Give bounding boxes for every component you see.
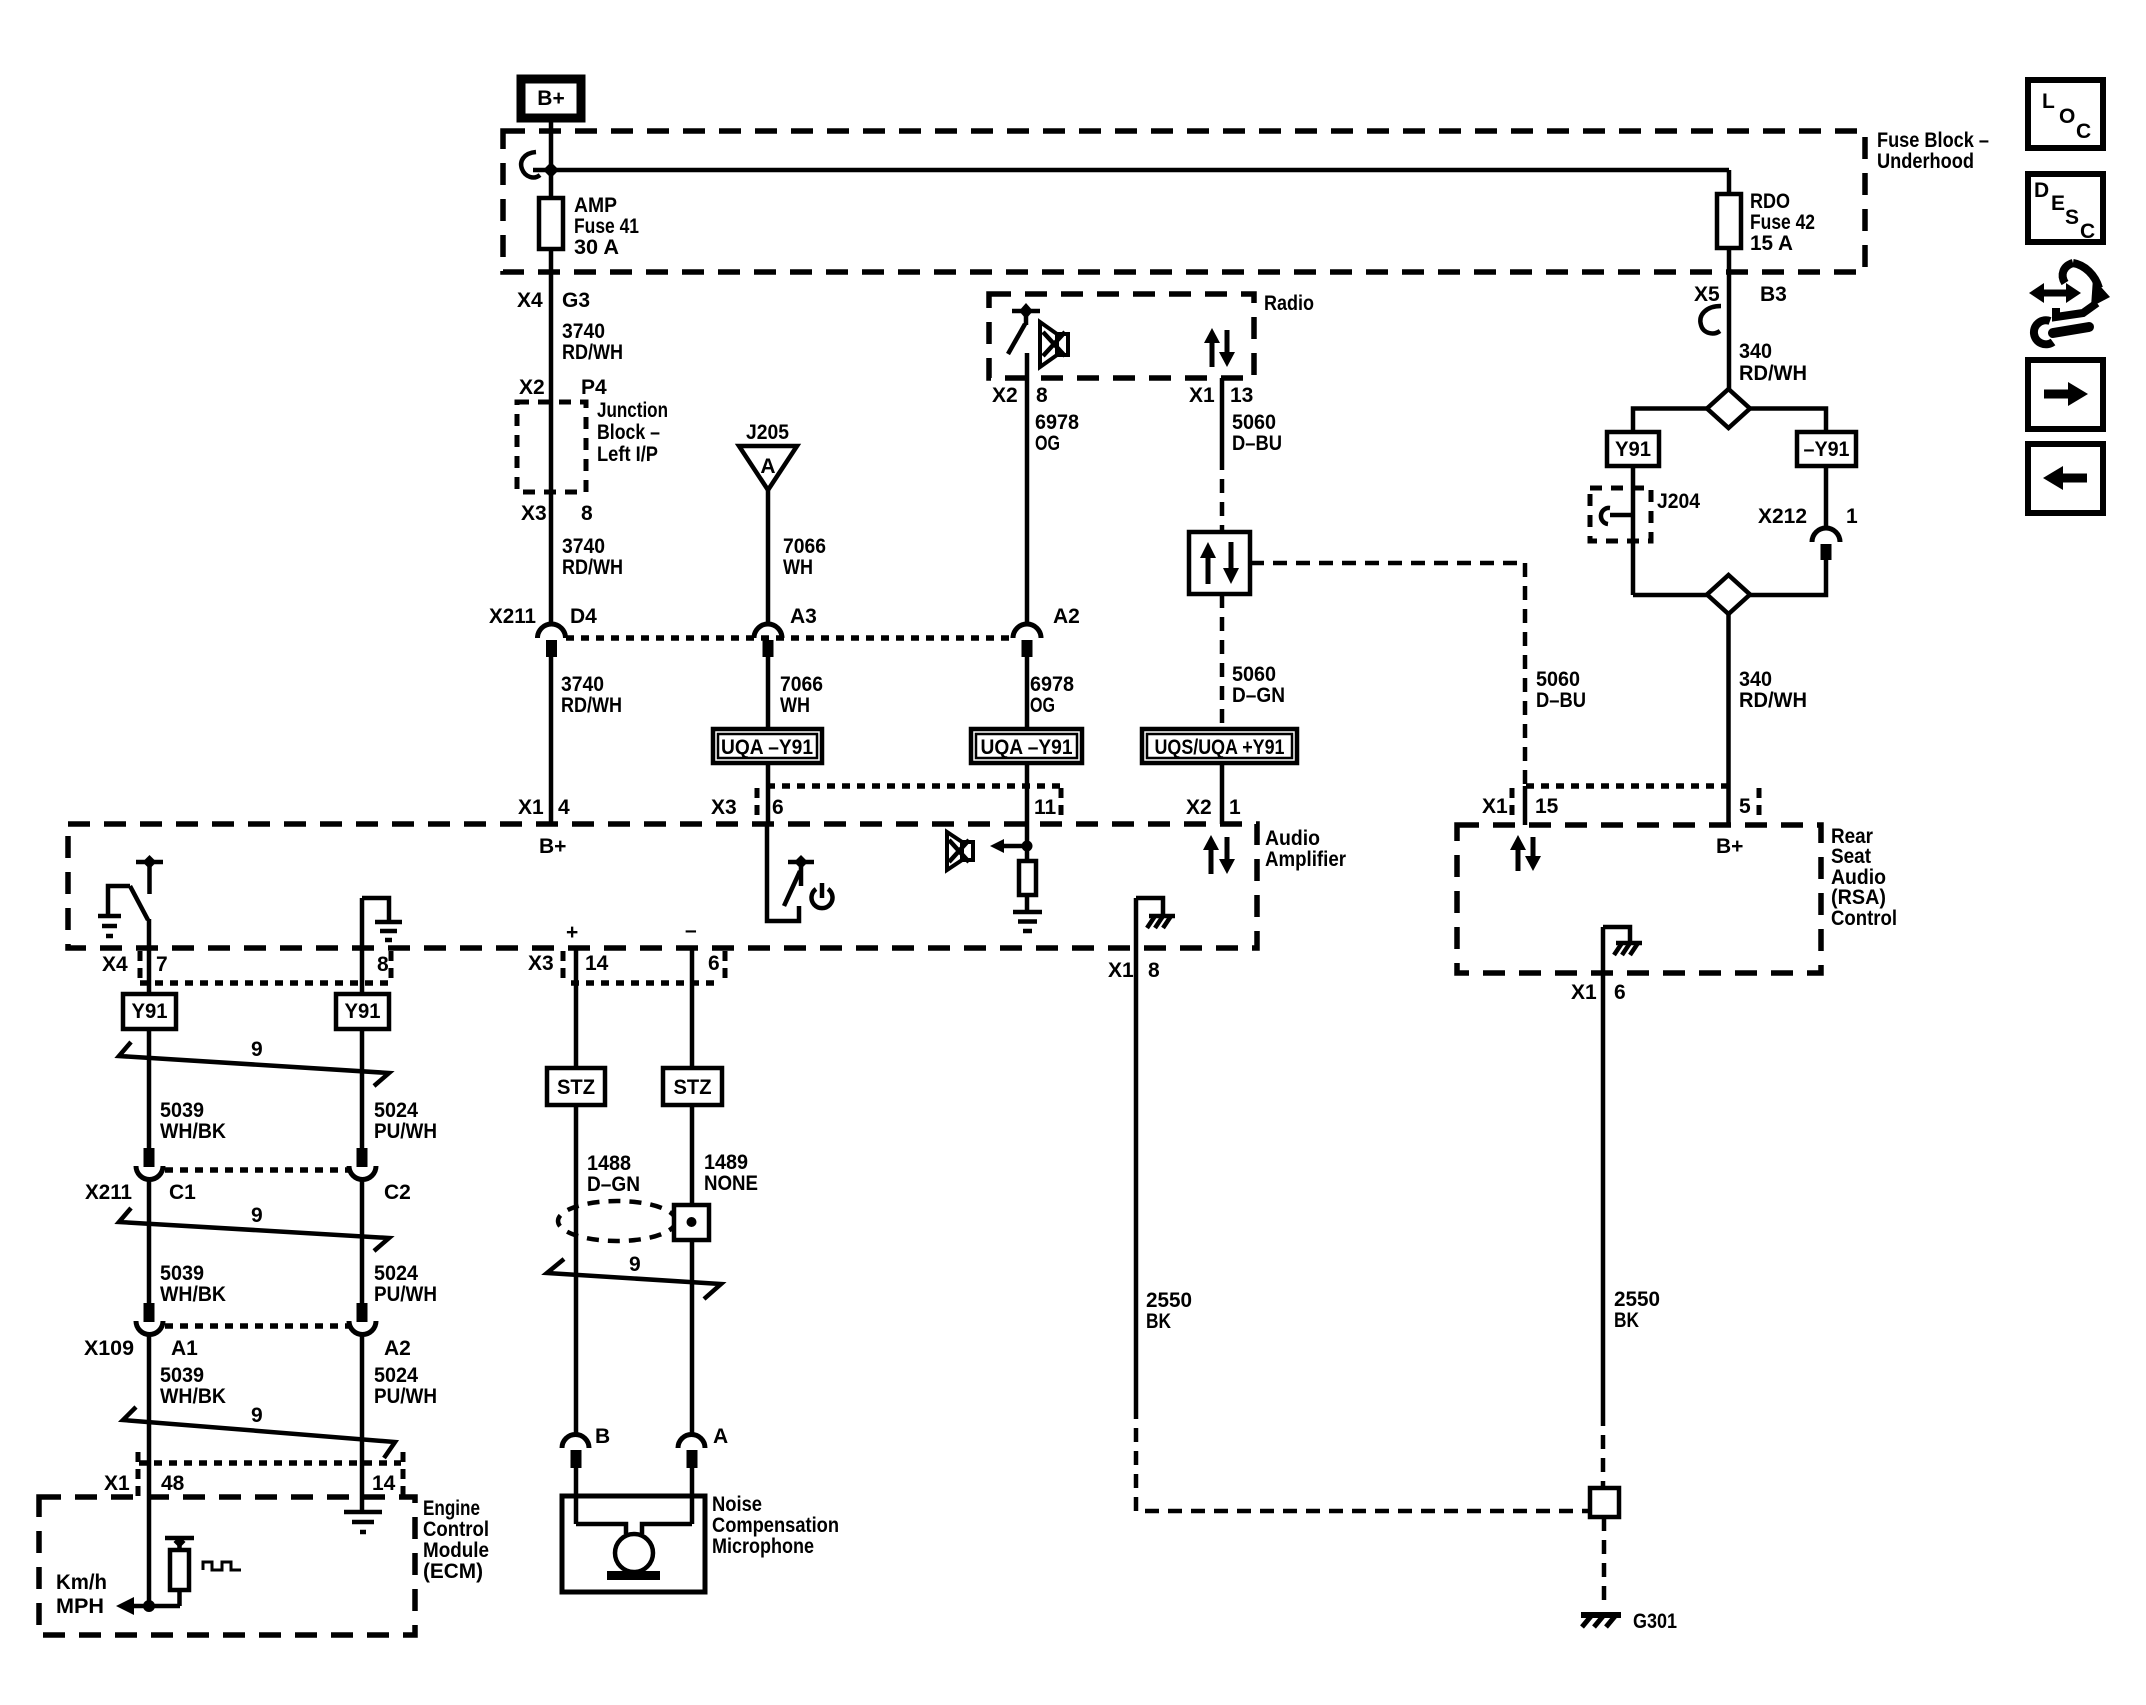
svg-text:5039: 5039 xyxy=(160,1364,204,1387)
svg-text:Block –: Block – xyxy=(597,421,660,444)
svg-text:G3: G3 xyxy=(562,289,590,312)
amp chassis ground pin X1-8 xyxy=(1136,898,1175,948)
svg-text:A2: A2 xyxy=(1053,605,1080,628)
connector A arc xyxy=(678,1435,705,1449)
svg-text:30 A: 30 A xyxy=(574,236,619,259)
mic column connector X3 row xyxy=(528,952,720,975)
svg-text:Seat: Seat xyxy=(1831,845,1871,868)
amp wire pin 7 xyxy=(147,919,152,948)
Rear Seat Audio RSA Control dashed box xyxy=(1457,825,1821,973)
svg-text:E: E xyxy=(2051,192,2065,215)
wire A1 to ECM xyxy=(147,1335,152,1606)
connector X212 pin xyxy=(1821,544,1832,560)
svg-text:14: 14 xyxy=(585,952,609,975)
svg-text:3740: 3740 xyxy=(562,535,605,558)
connector X211 row: D4 A3 A2 xyxy=(489,605,1080,628)
wire B+ down into fuse block xyxy=(549,118,554,198)
svg-text:Control: Control xyxy=(423,1518,489,1541)
connector A2 cup xyxy=(349,1321,376,1335)
label 6978 OG xyxy=(1035,411,1079,455)
nav icon DESC box xyxy=(2028,174,2103,243)
Noise Compensation Microphone box xyxy=(562,1496,705,1592)
label 6978 OG xyxy=(1030,673,1074,717)
nav icon left arrow box xyxy=(2028,444,2103,513)
option box STZ right xyxy=(663,1068,722,1105)
wire hook at bus left end xyxy=(521,152,540,177)
svg-text:15: 15 xyxy=(1535,795,1559,818)
bus wire across fuse block xyxy=(533,168,1729,173)
amp wire resistor to ground xyxy=(1025,895,1030,912)
connector A3 socket arc xyxy=(754,624,782,638)
svg-text:D–BU: D–BU xyxy=(1536,689,1586,712)
svg-text:D4: D4 xyxy=(570,605,597,628)
svg-text:C: C xyxy=(2076,120,2091,143)
svg-text:3740: 3740 xyxy=(561,673,604,696)
svg-text:6: 6 xyxy=(772,796,784,819)
svg-text:D: D xyxy=(2034,179,2049,202)
svg-text:15 A: 15 A xyxy=(1750,232,1793,255)
amp ground switch icon pin 7 xyxy=(98,855,163,936)
wire 2550 BK RSA down xyxy=(1601,1010,1606,1412)
svg-text:BK: BK xyxy=(1146,1310,1171,1333)
label 2550 BK left xyxy=(1146,1289,1192,1333)
wire dashed from box down to UQS box xyxy=(1220,594,1225,729)
nav icon right arrow box xyxy=(2028,360,2103,429)
svg-text:C2: C2 xyxy=(384,1181,411,1204)
svg-text:+: + xyxy=(566,921,578,944)
svg-text:Fuse 41: Fuse 41 xyxy=(574,215,639,238)
svg-text:6978: 6978 xyxy=(1035,411,1079,434)
connector C2 cup xyxy=(349,1166,376,1180)
connector X1 48 14 labels xyxy=(104,1472,396,1495)
svg-text:1: 1 xyxy=(1846,505,1858,528)
option box UQA -Y91 (right) xyxy=(971,729,1082,763)
wire 6978 OG radio to A2 xyxy=(1025,353,1030,624)
svg-text:BK: BK xyxy=(1614,1309,1639,1332)
connector tick X3 mic left xyxy=(561,951,566,984)
svg-text:RD/WH: RD/WH xyxy=(1739,689,1807,712)
svg-text:340: 340 xyxy=(1739,340,1772,363)
Fuse Block - Underhood label xyxy=(1877,129,1989,173)
option box Y91 xyxy=(1607,432,1659,466)
svg-text:5060: 5060 xyxy=(1232,663,1276,686)
Junction Block - Left I/P dashed box xyxy=(517,402,586,492)
amp pin labels X1 8 xyxy=(1108,959,1160,982)
wire 6978 OG A2 to UQA box xyxy=(1025,657,1030,729)
ECM signal ground pin 14 xyxy=(344,1512,382,1532)
svg-text:S: S xyxy=(2065,206,2079,229)
svg-text:8: 8 xyxy=(1036,384,1048,407)
svg-text:7066: 7066 xyxy=(780,673,823,696)
amp pin labels X3 6 xyxy=(711,796,784,819)
svg-text:9: 9 xyxy=(629,1253,641,1276)
label 3740 RD/WH xyxy=(562,320,623,364)
svg-text:Control: Control xyxy=(1831,907,1897,930)
Junction Block label xyxy=(597,399,668,466)
bridge wires top xyxy=(1633,409,1826,433)
wire C2 to A2 xyxy=(360,1180,365,1303)
wire 1488 D-GN STZ to mic B xyxy=(574,1105,579,1435)
svg-text:J204: J204 xyxy=(1657,490,1700,513)
svg-text:Noise: Noise xyxy=(712,1493,762,1516)
label 7066 WH xyxy=(780,673,823,717)
wire dashed splice to G301 xyxy=(1602,1517,1607,1608)
svg-text:2550: 2550 xyxy=(1614,1288,1660,1311)
svg-text:B: B xyxy=(595,1425,610,1448)
wire through junction block xyxy=(549,402,554,492)
ECM Km/h MPH label xyxy=(56,1571,107,1618)
radio up/down arrows icon xyxy=(1204,328,1235,367)
svg-text:B3: B3 xyxy=(1760,283,1787,306)
svg-text:(RSA): (RSA) xyxy=(1831,886,1886,909)
svg-text:D–GN: D–GN xyxy=(1232,684,1285,707)
bridge wires bottom xyxy=(1633,560,1826,595)
ECM PWM waveform glyph xyxy=(203,1562,241,1570)
svg-text:6: 6 xyxy=(708,952,720,975)
svg-text:6: 6 xyxy=(1614,981,1626,1004)
label 1489 NONE xyxy=(704,1151,758,1195)
amp connector tick 11 right xyxy=(1059,788,1064,822)
svg-text:STZ: STZ xyxy=(557,1076,595,1099)
amp pin labels X1 4 B+ xyxy=(518,796,570,858)
svg-text:X3: X3 xyxy=(521,502,547,525)
nav icon LOC box xyxy=(2028,80,2103,148)
svg-text:RD/WH: RD/WH xyxy=(562,556,623,579)
ECM speed output wire and arrow xyxy=(116,1597,180,1615)
label 3740 RD/WH xyxy=(561,673,622,717)
splice diamond bottom xyxy=(1707,575,1750,614)
connector X109 A1 A2 labels xyxy=(84,1337,411,1360)
splice J205 triangle xyxy=(739,446,797,490)
svg-text:4: 4 xyxy=(558,796,570,819)
svg-text:PU/WH: PU/WH xyxy=(374,1385,437,1408)
connector tick X4 left xyxy=(138,951,143,984)
shield ellipse dashed xyxy=(558,1201,676,1241)
ground splice box xyxy=(1590,1488,1619,1517)
label 1488 D-GN xyxy=(587,1152,640,1196)
twisted pair symbol 2 xyxy=(119,1208,389,1251)
svg-text:5024: 5024 xyxy=(374,1262,418,1285)
svg-text:WH: WH xyxy=(780,694,810,717)
svg-text:X2: X2 xyxy=(992,384,1018,407)
RSA pin label 5 B+ xyxy=(1716,795,1751,858)
svg-text:5039: 5039 xyxy=(160,1262,204,1285)
connector C1 pin xyxy=(144,1148,155,1167)
svg-text:WH/BK: WH/BK xyxy=(160,1120,226,1143)
svg-text:C1: C1 xyxy=(169,1181,196,1204)
connector dotted line X3 mic xyxy=(571,980,717,986)
RSA pin labels X1 15 xyxy=(1482,795,1559,818)
connector C1 cup xyxy=(136,1166,163,1180)
svg-text:UQS/UQA +Y91: UQS/UQA +Y91 xyxy=(1155,736,1285,759)
wire 2550 BK dashed to splice xyxy=(1601,1412,1606,1490)
svg-text:3740: 3740 xyxy=(562,320,605,343)
connector dotted line X211 xyxy=(566,635,1013,641)
svg-text:D–GN: D–GN xyxy=(587,1173,640,1196)
svg-text:RDO: RDO xyxy=(1750,190,1790,213)
svg-text:X1: X1 xyxy=(1482,795,1508,818)
RSA connector dotted line xyxy=(1526,783,1730,789)
svg-text:7: 7 xyxy=(156,953,168,976)
wire pin8 to Y91 xyxy=(360,948,365,994)
twisted pair symbol mic xyxy=(547,1259,721,1299)
svg-text:X1: X1 xyxy=(104,1472,130,1495)
wire 1489 to shield box xyxy=(690,1105,695,1205)
connector X2 P4 labels xyxy=(519,376,607,399)
svg-text:A3: A3 xyxy=(790,605,817,628)
label 3740 RD/WH xyxy=(562,535,623,579)
svg-text:X5: X5 xyxy=(1694,283,1720,306)
radio switch contact icon xyxy=(1008,303,1040,354)
connector D4 socket arc xyxy=(538,624,566,638)
connector tick X3 mic right xyxy=(723,951,728,984)
connector tick X4 right xyxy=(389,951,394,984)
svg-text:5060: 5060 xyxy=(1232,411,1276,434)
RSA wire ground to pin X1-6 xyxy=(1601,927,1606,1010)
connector A2 pin xyxy=(357,1303,368,1322)
connector A2 pin xyxy=(1022,640,1033,657)
wire 5060 D-BU dashed to steering box xyxy=(1220,456,1225,532)
label 5039 WH/BK xyxy=(160,1364,226,1408)
connector dotted line X4 xyxy=(140,980,391,986)
amp resistor xyxy=(1019,861,1036,895)
Fuse Block - Underhood dashed box xyxy=(503,131,1865,272)
svg-text:WH/BK: WH/BK xyxy=(160,1385,226,1408)
label 7066 WH xyxy=(783,535,826,579)
amp connector tick X3 left xyxy=(755,788,760,822)
Audio Amplifier label xyxy=(1265,827,1346,871)
svg-text:Amplifier: Amplifier xyxy=(1265,848,1346,871)
connector X211 C1 C2 labels xyxy=(85,1181,411,1204)
amp wire pin 8 xyxy=(360,898,365,948)
svg-text:X2: X2 xyxy=(1186,796,1212,819)
svg-text:Y91: Y91 xyxy=(345,1000,381,1023)
wire 3740 RD/WH junction block to X211 xyxy=(549,492,554,624)
RSA pin labels X1 6 xyxy=(1571,981,1626,1004)
svg-text:B+: B+ xyxy=(537,87,564,110)
svg-text:11: 11 xyxy=(1034,796,1057,819)
svg-text:X1: X1 xyxy=(1108,959,1134,982)
wire mic - to STZ xyxy=(690,948,695,1068)
amp mute arrow xyxy=(990,839,1033,853)
svg-text:8: 8 xyxy=(581,502,593,525)
connector X212 socket arc xyxy=(1812,528,1840,542)
svg-text:J205: J205 xyxy=(746,421,789,444)
svg-text:Radio: Radio xyxy=(1264,292,1314,315)
wire 3740 RD/WH X211 to amplifier xyxy=(549,657,554,824)
svg-text:5060: 5060 xyxy=(1536,668,1580,691)
connector tick X1 right xyxy=(401,1452,406,1496)
wire dashed 5060 D-BU down to RSA xyxy=(1523,563,1528,788)
amp power switch icon xyxy=(767,824,833,921)
svg-text:WH: WH xyxy=(783,556,813,579)
svg-text:9: 9 xyxy=(251,1404,263,1427)
connector A2 socket arc xyxy=(1013,624,1041,638)
connector X212 1 labels xyxy=(1758,505,1858,528)
microphone element symbol xyxy=(576,1524,692,1580)
label 5060 D-GN xyxy=(1232,663,1285,707)
svg-text:5024: 5024 xyxy=(374,1099,418,1122)
svg-text:RD/WH: RD/WH xyxy=(562,341,623,364)
wire 2550 BK dashed to corner xyxy=(1136,1405,1590,1511)
wire dashed branch to RSA xyxy=(1250,561,1525,566)
svg-text:PU/WH: PU/WH xyxy=(374,1283,437,1306)
wire 2550 BK amp X1-8 down xyxy=(1134,948,1139,1405)
amp up/down arrows icon xyxy=(1203,835,1235,874)
svg-text:X4: X4 xyxy=(517,289,543,312)
splice J204 hook symbol xyxy=(1601,508,1633,524)
svg-text:1: 1 xyxy=(1229,796,1241,819)
wire 5024 PU/WH Y91 to X211 xyxy=(360,1029,365,1148)
svg-text:Module: Module xyxy=(423,1539,489,1562)
connector B arc xyxy=(562,1435,589,1449)
svg-text:STZ: STZ xyxy=(674,1076,712,1099)
svg-text:6978: 6978 xyxy=(1030,673,1074,696)
svg-text:5: 5 xyxy=(1739,795,1751,818)
svg-text:340: 340 xyxy=(1739,668,1772,691)
amp ground icon pin 8 xyxy=(362,898,402,940)
svg-text:X1: X1 xyxy=(518,796,544,819)
svg-text:B+: B+ xyxy=(539,835,566,858)
ECM sensor resistor xyxy=(165,1536,194,1606)
amp pin labels X2 1 xyxy=(1186,796,1241,819)
label 5024 PU/WH xyxy=(374,1099,437,1143)
RSA label xyxy=(1831,825,1897,930)
option box Y91 left xyxy=(123,994,176,1029)
svg-text:13: 13 xyxy=(1230,384,1253,407)
mic label xyxy=(712,1493,839,1558)
Radio dashed box xyxy=(989,294,1254,378)
junction dot B+ bus xyxy=(543,162,559,178)
svg-text:A1: A1 xyxy=(171,1337,198,1360)
svg-text:B+: B+ xyxy=(1716,835,1743,858)
label 5060 D-BU xyxy=(1536,668,1586,712)
wire UQS box to amp pin X2-1 xyxy=(1220,763,1225,824)
wire 5060 D-BU radio X1-13 solid stub xyxy=(1220,378,1225,456)
svg-text:Junction: Junction xyxy=(597,399,668,422)
svg-text:X2: X2 xyxy=(519,376,545,399)
svg-text:Fuse 42: Fuse 42 xyxy=(1750,211,1815,234)
svg-text:L: L xyxy=(2042,90,2055,113)
amp signal ground xyxy=(1013,912,1042,931)
Engine Control Module dashed box xyxy=(39,1497,415,1635)
wire hook at X5 xyxy=(1700,306,1721,333)
svg-text:7066: 7066 xyxy=(783,535,826,558)
connector D4 pin xyxy=(546,640,557,657)
svg-text:Engine: Engine xyxy=(423,1497,480,1520)
RSA connector tick right xyxy=(1757,788,1762,822)
label 5024 PU/WH xyxy=(374,1364,437,1408)
option box -Y91 xyxy=(1797,432,1856,466)
label 340 RD/WH xyxy=(1739,668,1807,712)
svg-text:X4: X4 xyxy=(102,953,128,976)
svg-text:X212: X212 xyxy=(1758,505,1807,528)
svg-text:UQA –Y91: UQA –Y91 xyxy=(721,736,813,759)
chassis ground G301 xyxy=(1581,1615,1621,1627)
left column connector X4 row xyxy=(102,953,389,976)
wire A into mic box xyxy=(690,1468,695,1524)
svg-text:8: 8 xyxy=(1148,959,1160,982)
label 2550 BK right xyxy=(1614,1288,1660,1332)
wire 340 RD/WH diamond to RSA pin 5 xyxy=(1726,614,1731,825)
radio muted speaker icon xyxy=(1040,322,1068,367)
connector dotted line X109 xyxy=(165,1323,350,1329)
svg-text:A: A xyxy=(713,1425,728,1448)
connector X5 B3 labels xyxy=(1694,283,1787,306)
svg-text:X3: X3 xyxy=(528,952,554,975)
connector A1 pin xyxy=(144,1303,155,1322)
wire C1 to A1 xyxy=(147,1180,152,1303)
label 5060 D-BU xyxy=(1232,411,1282,455)
connector A3 pin xyxy=(763,640,774,657)
svg-text:MPH: MPH xyxy=(56,1595,104,1618)
svg-text:Km/h: Km/h xyxy=(56,1571,107,1594)
svg-text:X109: X109 xyxy=(84,1337,134,1360)
wire 5039 WH/BK Y91 to X211 xyxy=(147,1029,152,1148)
svg-text:A2: A2 xyxy=(384,1337,411,1360)
connector X4 G3 labels xyxy=(517,289,590,312)
svg-text:WH/BK: WH/BK xyxy=(160,1283,226,1306)
RSA wire pin15 stub xyxy=(1523,786,1528,825)
RSA chassis ground xyxy=(1603,927,1642,955)
svg-text:UQA –Y91: UQA –Y91 xyxy=(981,736,1073,759)
svg-text:9: 9 xyxy=(251,1204,263,1227)
wire pin7 to Y91 xyxy=(147,948,152,994)
connector dotted line X211 row2 xyxy=(165,1167,350,1173)
svg-text:OG: OG xyxy=(1030,694,1055,717)
svg-text:8: 8 xyxy=(377,953,389,976)
amp connector dotted line X3-6 to 11 xyxy=(767,783,1061,789)
svg-text:A: A xyxy=(760,455,775,478)
wire 7066 WH A3 to UQA box xyxy=(766,657,771,729)
option box STZ left xyxy=(547,1068,605,1105)
amp muted speaker icon xyxy=(947,832,973,870)
option box Y91 right xyxy=(336,994,389,1029)
svg-text:2550: 2550 xyxy=(1146,1289,1192,1312)
svg-text:PU/WH: PU/WH xyxy=(374,1120,437,1143)
connector dotted line X1 ECM xyxy=(139,1460,401,1466)
label 5039 WH/BK xyxy=(160,1262,226,1306)
connector A pin xyxy=(687,1450,698,1468)
wire 340 RD/WH fuse42 to diamond xyxy=(1727,248,1732,390)
fuse RDO Fuse 42 15A xyxy=(1717,170,1815,255)
svg-text:G301: G301 xyxy=(1633,1610,1677,1633)
svg-text:X3: X3 xyxy=(711,796,737,819)
connector A1 cup xyxy=(136,1321,163,1335)
fuse AMP Fuse 41 30A xyxy=(539,194,639,259)
svg-text:O: O xyxy=(2059,105,2075,128)
svg-text:Underhood: Underhood xyxy=(1877,150,1974,173)
wire B into mic box xyxy=(574,1468,579,1524)
svg-text:–: – xyxy=(685,919,697,942)
splice J204 dashed box xyxy=(1590,488,1651,541)
amp mic pins plus minus labels xyxy=(566,919,697,944)
wire UQA box to amp pin X3-6 xyxy=(766,763,771,824)
radio pin labels X2 8 X1 13 xyxy=(992,384,1253,407)
label 5039 WH/BK xyxy=(160,1099,226,1143)
svg-text:P4: P4 xyxy=(581,376,607,399)
label 5024 PU/WH xyxy=(374,1262,437,1306)
svg-text:RD/WH: RD/WH xyxy=(1739,362,1807,385)
svg-text:X211: X211 xyxy=(489,605,536,628)
label 340 RD/WH xyxy=(1739,340,1807,385)
wire -Y91 down to X212 xyxy=(1824,466,1829,528)
connector X3 8 labels xyxy=(521,502,593,525)
steering wheel controls up/down arrows box xyxy=(1189,532,1250,594)
amp wire pin 11 to resistor xyxy=(1025,824,1030,861)
Audio Amplifier dashed box xyxy=(68,824,1257,948)
svg-text:9: 9 xyxy=(251,1038,263,1061)
